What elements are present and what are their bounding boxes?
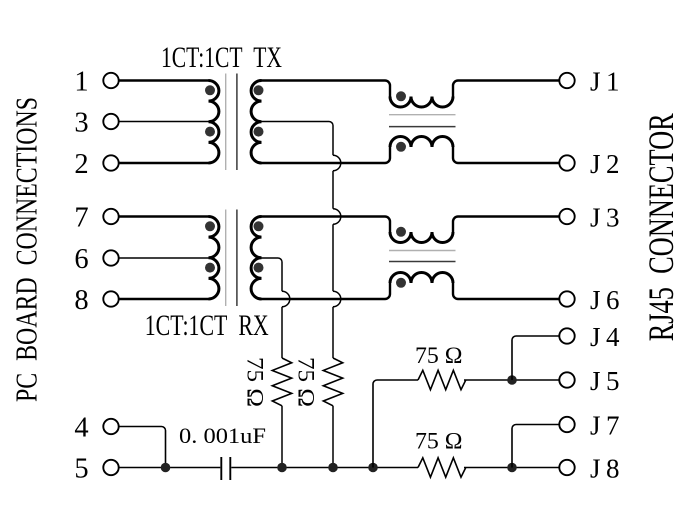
wire choke L2 top to J3	[453, 217, 559, 233]
choke L2 core line (dark)	[389, 261, 456, 263]
wire choke L2 bottom to J6	[453, 283, 559, 299]
wire pin1 to T1 primary	[119, 79, 209, 81]
pin 2 terminal	[74, 149, 118, 180]
junction dot J7 riser on J8 wire	[507, 463, 517, 473]
resistor R2 75 ohm (vertical)	[323, 358, 342, 406]
wire R3 to J5	[464, 379, 559, 381]
svg-text:0. 001uF: 0. 001uF	[179, 423, 266, 448]
L2 bottom winding polarity dot	[396, 278, 406, 288]
wire hop over T2 bottom wire	[333, 291, 341, 307]
resistor R3 75 ohm (horizontal, J5 row)	[418, 370, 466, 389]
pin 3 terminal	[74, 108, 118, 139]
wire pin7 to T2 primary	[119, 215, 209, 217]
svg-text:1: 1	[74, 67, 88, 98]
T1 primary polarity dot (top)	[205, 85, 215, 95]
junction dot J4 riser on J5 wire	[507, 375, 517, 385]
wire pin8 to T2 primary	[119, 298, 209, 300]
wire rail riser to J5 row	[373, 380, 418, 468]
terminal J3	[559, 203, 619, 233]
svg-text:1CT:1CT TX: 1CT:1CT TX	[161, 41, 282, 74]
wire pin5 to capacitor C1	[119, 467, 220, 469]
pin 8 terminal	[74, 285, 118, 316]
transformer T2 core line (light)	[225, 210, 227, 307]
capacitor C1 plate left	[220, 457, 222, 480]
wire hop over T1 bottom wire	[333, 155, 341, 171]
svg-text:75 Ω: 75 Ω	[243, 357, 268, 407]
junction dot pin4/pin5	[161, 463, 171, 473]
wire pin6 to T2 primary center tap	[119, 257, 209, 259]
wire R4 to J8	[464, 467, 559, 469]
L2 top winding polarity dot	[396, 227, 406, 237]
wire to resistor R1	[281, 307, 283, 358]
transformer T2 primary winding	[209, 217, 219, 300]
wire capacitor C1 to resistor R4	[231, 467, 418, 469]
pin 5 terminal	[74, 454, 118, 485]
svg-text:75 Ω: 75 Ω	[294, 357, 319, 407]
wire continues down	[332, 224, 334, 291]
T2 primary polarity dot (center tap)	[205, 263, 215, 273]
svg-text:2: 2	[74, 149, 88, 180]
junction dot R2 at rail	[328, 463, 338, 473]
transformer T2 secondary winding	[251, 217, 261, 300]
wire choke L1 top to J1	[453, 81, 559, 97]
transformer T1 secondary winding	[251, 81, 261, 164]
terminal J8	[559, 454, 619, 484]
choke L1 core line (dark)	[389, 126, 456, 128]
T1 secondary polarity dot (top)	[254, 85, 264, 95]
svg-text:5: 5	[74, 454, 88, 485]
transformer T1 core line (light)	[225, 74, 227, 171]
terminal J4	[559, 322, 620, 352]
svg-text:PC BOARD CONNECTIONS: PC BOARD CONNECTIONS	[9, 97, 44, 402]
transformer T1 core line (dark)	[236, 74, 238, 171]
pin 6 terminal	[74, 244, 118, 275]
svg-text:3: 3	[74, 108, 88, 139]
T2 primary polarity dot (top)	[205, 221, 215, 231]
wire R1 to bottom rail	[281, 406, 283, 468]
L1 bottom winding polarity dot	[396, 142, 406, 152]
resistor R1 75 ohm (vertical)	[272, 358, 291, 406]
pin 1 terminal	[74, 67, 118, 98]
capacitor C1 plate right	[229, 457, 231, 480]
wire T2 secondary top to choke L2	[262, 217, 391, 233]
svg-text:75 Ω: 75 Ω	[415, 429, 463, 454]
T2 secondary polarity dot (center tap)	[254, 263, 264, 273]
terminal J7	[559, 411, 619, 441]
wire continues down	[332, 171, 334, 209]
junction dot riser to R3	[368, 463, 378, 473]
wire hop over T2 top wire	[333, 209, 341, 225]
pin 7 terminal	[74, 203, 118, 234]
wire choke L1 bottom to J2	[453, 147, 559, 163]
wire T1 secondary top to choke L1	[262, 81, 391, 97]
wire pin4 down to bottom rail	[119, 427, 166, 468]
choke L2 top winding	[390, 232, 453, 243]
wire pin2 to T1 primary	[119, 162, 209, 164]
wire T2 secondary bottom to choke L2	[262, 283, 391, 299]
T1 primary polarity dot (center tap)	[205, 127, 215, 137]
svg-text:75 Ω: 75 Ω	[415, 343, 463, 368]
svg-text:1CT:1CT RX: 1CT:1CT RX	[145, 309, 269, 342]
choke L2 core line (light)	[389, 250, 456, 252]
wire T2 secondary center tap down (node B, x=282)	[262, 258, 283, 291]
choke L1 top winding	[390, 97, 453, 108]
junction dot R1 at rail	[277, 463, 287, 473]
L1 top winding polarity dot	[396, 91, 406, 101]
resistor R4 75 ohm (horizontal, bottom rail)	[418, 458, 466, 477]
svg-text:7: 7	[74, 203, 88, 234]
choke L2 bottom winding	[390, 273, 453, 284]
wire T1 secondary bottom to choke L1	[262, 147, 391, 163]
wire J7 riser	[512, 425, 559, 468]
transformer T2 core line (dark)	[236, 210, 238, 307]
terminal J1	[559, 67, 619, 97]
wire R2 to bottom rail	[332, 406, 334, 468]
wire to resistor R2	[332, 307, 334, 358]
choke L1 bottom winding	[390, 137, 453, 148]
svg-text:8: 8	[74, 285, 88, 316]
T1 secondary polarity dot (center tap)	[254, 127, 264, 137]
T2 secondary polarity dot (top)	[254, 221, 264, 231]
pin 4 terminal	[74, 413, 118, 444]
terminal J2	[559, 149, 619, 179]
terminal J6	[559, 285, 619, 315]
transformer T1 primary winding	[209, 81, 219, 164]
terminal J5	[559, 366, 619, 396]
svg-text:4: 4	[74, 413, 88, 444]
svg-text:RJ45 CONNECTOR: RJ45 CONNECTOR	[641, 113, 675, 341]
wire J4 riser	[512, 336, 559, 380]
wire pin3 to T1 primary center tap	[119, 121, 209, 123]
wire T1 secondary center tap down (node A, x=333)	[262, 122, 334, 156]
choke L1 core line (light)	[389, 114, 456, 116]
svg-text:6: 6	[74, 244, 88, 275]
wire hop over T2 bottom wire	[282, 291, 290, 307]
